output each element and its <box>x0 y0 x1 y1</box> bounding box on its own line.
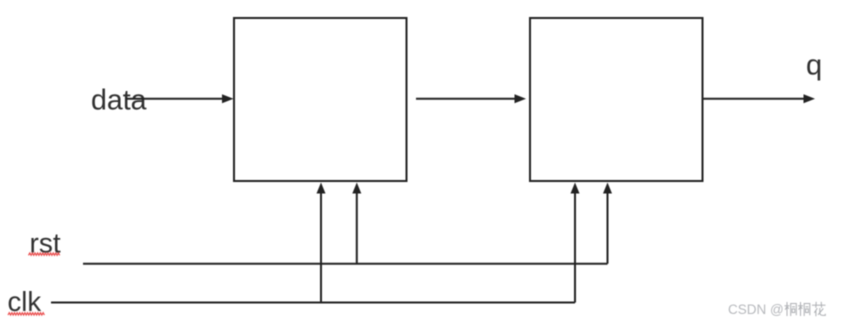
wire clk to U1 <box>317 183 326 303</box>
spellcheck squiggle under rst <box>29 253 60 255</box>
register block U1 <box>234 18 407 181</box>
register block U2 <box>530 18 703 181</box>
wire clk net <box>51 302 575 304</box>
svg-text:data: data <box>91 85 147 117</box>
watermark glyph tong 2 <box>798 302 810 316</box>
wire rst to U2 <box>603 183 612 264</box>
wire rst net <box>83 263 608 265</box>
watermark glyph tong 1 <box>785 302 797 316</box>
spellcheck squiggle under clk <box>8 313 44 315</box>
watermark glyph hua <box>812 302 826 316</box>
wire q output <box>703 94 816 103</box>
svg-text:q: q <box>806 50 822 82</box>
wire U1 to U2 <box>416 94 526 103</box>
wire rst to U1 <box>352 183 361 264</box>
wire data input <box>126 94 234 103</box>
wire clk to U2 <box>571 183 580 303</box>
svg-text:CSDN @: CSDN @ <box>728 302 784 317</box>
